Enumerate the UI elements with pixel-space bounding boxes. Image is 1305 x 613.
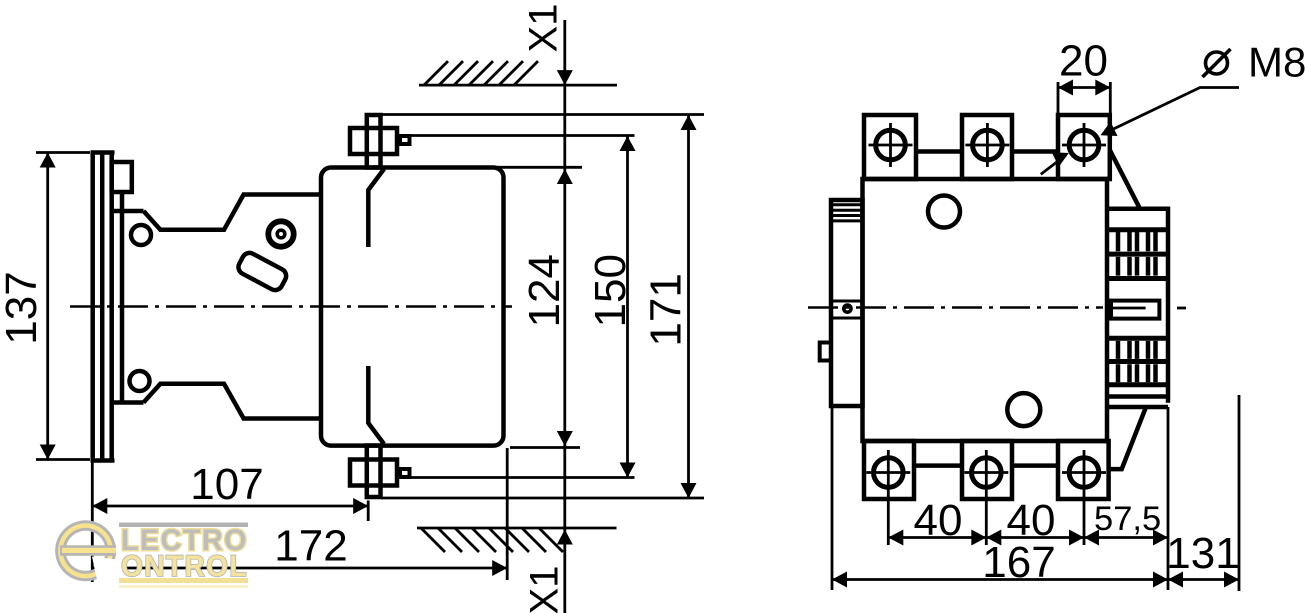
top terminal block 1 — [864, 115, 916, 179]
yoke profile bottom — [144, 384, 322, 419]
bracket rail — [112, 192, 144, 403]
top terminal screw 1 — [869, 123, 913, 167]
mounting hole bottom — [1007, 393, 1040, 426]
rear edge between top blocks — [916, 149, 1058, 154]
bottom yellow rule — [119, 578, 248, 583]
side tab — [820, 343, 831, 361]
pivot dot — [844, 305, 851, 312]
top terminal block 3 — [1058, 115, 1110, 179]
centerline (left view axis) — [70, 305, 512, 308]
hole top — [131, 225, 151, 245]
hatched surface top — [419, 61, 617, 85]
svg-text:137: 137 — [0, 271, 46, 344]
centerline (right view axis) — [808, 306, 1186, 309]
dim 124 — [490, 167, 582, 447]
main body (front) — [863, 179, 1108, 441]
svg-text:X1: X1 — [521, 4, 565, 53]
top gray rule — [119, 523, 248, 528]
bottom terminal block 2 — [962, 441, 1012, 499]
svg-text:57,5: 57,5 — [1094, 500, 1161, 538]
big e ring — [55, 520, 116, 581]
slant top right — [1110, 150, 1140, 208]
dim 40 (right) — [986, 450, 1084, 546]
e bar — [60, 545, 116, 556]
aux contact fin block (right side) — [1107, 209, 1168, 407]
svg-text:172: 172 — [274, 522, 347, 571]
svg-text:X1: X1 — [522, 566, 566, 613]
main body (side) — [321, 168, 504, 446]
dim 137 — [0, 153, 90, 460]
dim 150 — [410, 136, 636, 478]
rear edge between bottom blocks — [914, 463, 1058, 468]
hole bottom — [130, 371, 150, 391]
dim 131 — [1166, 395, 1239, 591]
svg-text:40: 40 — [914, 496, 963, 545]
bottom terminal block 1 — [864, 441, 914, 499]
coil terminal strip (left side) — [831, 200, 863, 406]
mounting hole top — [928, 196, 960, 228]
X1 top — [521, 4, 572, 86]
inner contact line top — [368, 169, 384, 247]
bottom terminal screw 3 — [1062, 458, 1106, 488]
bottom terminal screw 1 — [866, 458, 910, 488]
dim 57,5 — [1084, 407, 1168, 590]
svg-text:150: 150 — [586, 254, 635, 327]
svg-text:124: 124 — [520, 254, 569, 327]
dim 20 — [1058, 37, 1110, 114]
dia M8 callout — [1041, 39, 1305, 175]
mounting plate (3 laminate lines) — [91, 153, 115, 461]
bottom terminal clamp — [350, 446, 410, 498]
svg-text:171: 171 — [642, 273, 691, 346]
svg-text:M8: M8 — [1248, 39, 1305, 86]
top terminal screw 2 — [965, 123, 1009, 167]
bottom terminal screw 2 — [964, 458, 1008, 488]
X1 / 124 shared dimension line — [563, 20, 566, 613]
svg-text:ONTROL: ONTROL — [121, 550, 248, 583]
svg-text:131: 131 — [1166, 529, 1239, 578]
svg-text:107: 107 — [190, 460, 263, 509]
dim 40 (left) — [888, 450, 986, 546]
angled slot — [236, 250, 289, 292]
svg-text:167: 167 — [982, 538, 1055, 587]
e aperture — [92, 557, 130, 590]
top terminal clamp — [350, 115, 410, 168]
dim 107 — [92, 460, 368, 521]
slant bottom right — [1109, 407, 1146, 469]
dim 171 — [381, 115, 704, 499]
dim 172 — [92, 448, 507, 582]
hatched surface bottom — [417, 528, 617, 552]
yoke profile top — [144, 195, 322, 230]
top terminal screw 3 — [1062, 123, 1106, 167]
svg-text:20: 20 — [1059, 37, 1108, 86]
plate top tab — [112, 162, 132, 192]
dim 167 — [832, 406, 1168, 590]
bottom terminal block 3 — [1058, 441, 1109, 499]
X1 bottom — [522, 530, 572, 613]
inner contact line bottom — [368, 366, 384, 444]
top terminal block 2 — [962, 115, 1012, 179]
screw head — [268, 221, 293, 246]
